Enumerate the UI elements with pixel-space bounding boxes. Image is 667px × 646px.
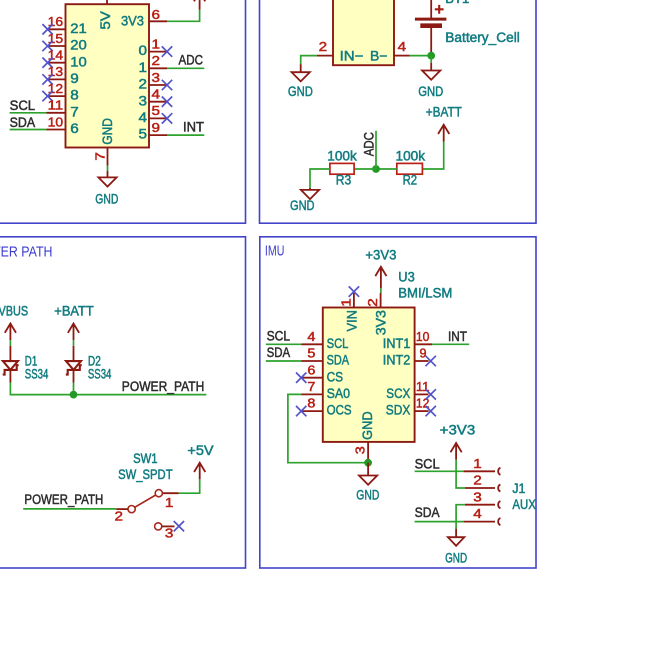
wire R3 to ground: [310, 169, 330, 188]
svg-text:10: 10: [48, 114, 64, 129]
U1 bottom pin 7 GND: [107, 148, 109, 166]
wire battery to ground: [430, 56, 432, 63]
ground symbol below R3: [309, 188, 311, 190]
svg-text:GND: GND: [100, 118, 115, 145]
svg-text:+BATT: +BATT: [54, 304, 94, 319]
svg-text:GND: GND: [418, 84, 443, 99]
svg-text:IN−: IN−: [340, 49, 364, 64]
sheet box CHARGER (top-right): [260, 0, 537, 223]
wire U2 pin4 to battery: [410, 55, 432, 57]
U3 right pin 12 (SDX): [415, 410, 429, 412]
SW1 pin 3: [155, 523, 162, 530]
sheet box POWER (top-left): [0, 0, 246, 223]
U1 left pin 10 (name 6): [47, 129, 66, 131]
J1 pin 3: [465, 504, 495, 506]
junction U3 ground: [364, 459, 372, 467]
wire D2 down: [73, 383, 75, 395]
wire +VBUS to D1: [9, 340, 11, 346]
svg-text:SDA: SDA: [415, 505, 440, 520]
svg-text:SCL: SCL: [415, 457, 440, 472]
U3 pin 2 (3V3): [380, 293, 382, 308]
svg-text:SCL: SCL: [267, 328, 291, 343]
U2 left pin 2: [317, 55, 333, 57]
U3 pin 11 no-connect X: [426, 389, 436, 399]
U1 pin 12 no-connect X: [42, 91, 52, 101]
wire SCL to J1 pin1: [415, 470, 464, 472]
U3 pin 6 no-connect X: [296, 373, 306, 383]
J1 pin 1: [464, 470, 495, 472]
svg-text:7: 7: [92, 152, 107, 161]
svg-text:SCX: SCX: [386, 386, 410, 401]
J1 pin 2: [465, 487, 495, 489]
J1 pin 4: [464, 521, 495, 523]
svg-text:4: 4: [473, 506, 482, 521]
U1 right pin 3 (name 2): [149, 84, 167, 86]
SW1 lever: [135, 495, 156, 507]
U3 left pin 7 (SA0): [302, 393, 323, 395]
ground symbol below J1: [455, 529, 457, 538]
svg-text:1: 1: [139, 60, 148, 75]
svg-text:6: 6: [70, 121, 79, 136]
wire INT from U3 pin10: [432, 343, 469, 345]
junction POWER_PATH: [70, 391, 78, 399]
U1 pin 1 no-connect X: [162, 46, 172, 56]
svg-text:7: 7: [70, 104, 79, 119]
svg-text:8: 8: [307, 396, 315, 411]
svg-text:+5V: +5V: [187, 443, 213, 458]
diode D2 cathode pin: [73, 370, 75, 383]
svg-text:5: 5: [139, 127, 148, 142]
svg-text:U3: U3: [398, 270, 415, 285]
U1 right pin 6 (3V3): [149, 20, 167, 22]
svg-text:GND: GND: [290, 198, 315, 213]
svg-text:3: 3: [352, 446, 367, 454]
wire +BATT to R2: [422, 142, 443, 170]
svg-text:1: 1: [473, 456, 482, 471]
power +BATT arrow: [438, 125, 449, 142]
battery BT1: [430, 0, 432, 19]
diode D1 (Schottky): [3, 361, 18, 370]
svg-text:INT2: INT2: [383, 353, 411, 368]
power +BATT arrow (power path): [68, 324, 79, 341]
svg-text:4: 4: [152, 87, 161, 102]
svg-text:7: 7: [307, 379, 315, 394]
svg-text:SA0: SA0: [327, 386, 351, 401]
U1 left pin 16 (name 21): [47, 28, 66, 30]
resistor R2: [397, 163, 423, 174]
svg-text:GND: GND: [288, 84, 313, 99]
wire +3V3 down to J1 pin2: [456, 460, 465, 488]
svg-text:+BATT: +BATT: [426, 104, 462, 119]
svg-text:+3V3: +3V3: [365, 247, 396, 262]
svg-text:6: 6: [152, 7, 161, 22]
svg-text:OCS: OCS: [327, 403, 352, 418]
U3 right pin 11 (SCX): [415, 393, 429, 395]
power +5V arrow: [194, 463, 205, 480]
svg-text:INT: INT: [183, 119, 204, 134]
wire SCL to U3 pin4: [266, 343, 302, 345]
power +3V3 arrow (J1): [451, 443, 462, 460]
ground symbol below U3: [367, 463, 369, 476]
svg-text:SCL: SCL: [10, 98, 36, 113]
wire POWER_PATH to SW1 pin2: [23, 508, 116, 510]
svg-text:2: 2: [473, 473, 482, 488]
U1 left pin 15 (name 20): [47, 45, 66, 47]
power +VBUS arrow: [5, 324, 16, 341]
wire U1 pin6 to +3V3: [167, 10, 200, 22]
svg-text:POWER_PATH: POWER_PATH: [122, 379, 205, 394]
wire ADC from U1 pin 2: [167, 67, 204, 69]
svg-text:Battery_Cell: Battery_Cell: [445, 30, 520, 45]
svg-text:VIN: VIN: [345, 310, 360, 332]
svg-text:8: 8: [70, 88, 79, 103]
svg-text:3: 3: [473, 489, 482, 504]
svg-text:100k: 100k: [396, 149, 426, 164]
ground symbol left of battery: [300, 64, 302, 72]
junction at battery negative: [427, 52, 435, 60]
svg-text:SW_SPDT: SW_SPDT: [118, 467, 173, 482]
U1 left pin 12 (name 8): [47, 95, 66, 97]
svg-text:SDA: SDA: [10, 115, 35, 130]
U3 bottom pin 3 (GND): [367, 442, 369, 463]
svg-text:ADC: ADC: [179, 53, 204, 68]
svg-text:10: 10: [416, 329, 430, 344]
svg-text:ADC: ADC: [361, 132, 376, 156]
svg-text:SS34: SS34: [88, 367, 112, 382]
U3 right pin 10 (INT1): [415, 343, 433, 345]
svg-text:1: 1: [152, 36, 161, 51]
diode D2 anode pin: [73, 346, 75, 361]
svg-text:3: 3: [152, 70, 161, 85]
svg-text:3: 3: [139, 93, 148, 108]
sheet box POWER PATH (bottom-left): [0, 237, 246, 568]
diode D2 (Schottky): [66, 361, 81, 370]
wire +5V to SW1 pin1: [179, 480, 200, 494]
U1 pin 13 no-connect X: [42, 74, 52, 84]
svg-text:IMU: IMU: [265, 243, 285, 259]
wire U3 pin7 SA0 to ground junction: [288, 394, 368, 462]
svg-text:R3: R3: [336, 173, 351, 188]
U1 left pin 11 (name 7): [47, 112, 66, 114]
svg-text:INT: INT: [448, 329, 467, 344]
svg-text:11: 11: [48, 98, 64, 113]
svg-text:CS: CS: [327, 369, 344, 384]
diode D1 cathode pin: [9, 370, 11, 383]
svg-text:SDA: SDA: [327, 353, 350, 368]
svg-text:2: 2: [152, 53, 161, 68]
IMU U3 body: [323, 308, 415, 442]
svg-text:R2: R2: [403, 173, 418, 188]
svg-text:SS34: SS34: [25, 367, 49, 382]
U1 left pin 13 (name 9): [47, 78, 66, 80]
U3 pin 12 no-connect X: [426, 406, 436, 416]
wire SDA to U1 pin 10: [10, 129, 47, 131]
charger U2 body (clipped top): [333, 0, 394, 65]
svg-text:1: 1: [165, 495, 174, 510]
U1 top pin 5V stub: [106, 0, 108, 4]
svg-text:3: 3: [165, 525, 174, 540]
svg-text:5: 5: [307, 346, 315, 361]
svg-text:9: 9: [420, 346, 427, 361]
svg-text:9: 9: [70, 71, 79, 86]
svg-text:INT1: INT1: [383, 336, 411, 351]
wire D1 to POWER_PATH: [10, 383, 206, 395]
svg-text:5: 5: [152, 103, 161, 118]
resistor R3: [330, 163, 354, 174]
svg-text:9: 9: [152, 120, 161, 135]
svg-text:+VBUS: +VBUS: [0, 304, 28, 319]
U3 left pin 5 (SDA): [302, 360, 323, 362]
svg-text:4: 4: [398, 39, 407, 54]
op-amp U1 body: [66, 4, 150, 147]
wire INT from U1 pin 9: [167, 134, 204, 136]
svg-text:3V3: 3V3: [121, 14, 144, 29]
svg-text:AUX: AUX: [512, 497, 536, 512]
wire +3V3 to U3 pin2: [380, 288, 382, 293]
U1 pin 15 no-connect X: [42, 41, 52, 51]
wire SCL to U1 pin 11: [10, 112, 47, 114]
U3 pin 1 no-connect X: [349, 286, 359, 296]
svg-text:SW1: SW1: [133, 451, 158, 466]
U3 pin 1 (VIN): [353, 293, 355, 308]
svg-text:2: 2: [115, 509, 124, 524]
svg-text:2: 2: [139, 77, 148, 92]
svg-text:J1: J1: [512, 481, 525, 496]
svg-text:+3V3: +3V3: [440, 423, 476, 438]
wire SDA to J1 pin4: [415, 521, 464, 523]
U1 right pin 9 (name 5): [149, 134, 167, 136]
wire SDA to U3 pin5: [266, 360, 302, 362]
battery BT1 plus sign: [435, 5, 444, 14]
sheet box IMU (bottom-right): [260, 237, 536, 568]
U1 right pin 1 (name 0): [149, 51, 167, 53]
svg-text:3V3: 3V3: [374, 310, 389, 335]
svg-text:SCL: SCL: [327, 336, 349, 351]
U1 right pin 2 (name 1): [149, 67, 167, 69]
wire U1 pin7 to ground: [107, 166, 109, 172]
U1 right pin 5 (name 4): [149, 117, 167, 119]
svg-text:4: 4: [307, 329, 315, 344]
U3 pin 9 no-connect X: [426, 356, 436, 366]
svg-text:10: 10: [70, 54, 87, 69]
svg-text:BMI/LSM: BMI/LSM: [398, 285, 452, 300]
SW1 pin 3 no-connect X: [174, 521, 184, 531]
power +3V3 arrow (top, clipped): [194, 0, 205, 10]
svg-text:100k: 100k: [327, 149, 357, 164]
U1 pin 16 no-connect X: [42, 24, 52, 34]
wire junction to R3: [354, 168, 376, 170]
svg-text:B−: B−: [370, 49, 388, 64]
U1 pin 5 no-connect X: [162, 113, 172, 123]
svg-text:POWER PATH: POWER PATH: [0, 245, 53, 261]
svg-text:POWER_PATH: POWER_PATH: [24, 492, 103, 507]
svg-text:GND: GND: [445, 551, 467, 566]
wire U2 pin2 to ground: [301, 56, 317, 65]
U3 left pin 4 (SCL): [302, 343, 323, 345]
svg-text:SDX: SDX: [386, 403, 411, 418]
svg-text:0: 0: [139, 43, 148, 58]
ground symbol below U1: [107, 171, 109, 177]
svg-text:5V: 5V: [98, 11, 113, 30]
wire R2 to junction: [376, 168, 397, 170]
svg-text:2: 2: [319, 39, 328, 54]
SW1 pin 2: [128, 506, 135, 513]
U1 pin 4 no-connect X: [162, 97, 172, 107]
svg-text:BT1: BT1: [445, 0, 469, 6]
wire J1 pin3 to ground: [456, 505, 465, 529]
U1 pin 3 no-connect X: [162, 80, 172, 90]
U2 right pin 4: [394, 55, 410, 57]
U3 right pin 9 (INT2): [415, 360, 429, 362]
svg-text:6: 6: [307, 362, 315, 377]
U1 pin 14 no-connect X: [42, 58, 52, 68]
svg-text:20: 20: [70, 38, 87, 53]
svg-text:GND: GND: [360, 411, 375, 440]
U3 left pin 8 (OCS): [302, 410, 323, 412]
ground symbol below battery: [430, 63, 432, 71]
junction ADC divider: [372, 165, 380, 173]
wire ADC vertical: [375, 131, 377, 169]
svg-text:GND: GND: [95, 191, 118, 206]
wire +BATT to D2: [73, 340, 75, 346]
power +3V3 arrow (U3): [375, 267, 386, 288]
svg-text:2: 2: [365, 298, 380, 307]
SW1 pin 1: [162, 492, 178, 494]
svg-text:GND: GND: [356, 487, 379, 502]
U3 pin 8 no-connect X: [296, 406, 306, 416]
diode D1 anode pin: [9, 346, 11, 361]
U1 left pin 14 (name 10): [47, 62, 66, 64]
U1 right pin 4 (name 3): [149, 101, 167, 103]
svg-text:SDA: SDA: [267, 345, 291, 360]
svg-text:21: 21: [70, 21, 87, 36]
U3 left pin 6 (CS): [302, 377, 323, 379]
svg-text:1: 1: [338, 298, 353, 307]
svg-text:4: 4: [139, 110, 148, 125]
